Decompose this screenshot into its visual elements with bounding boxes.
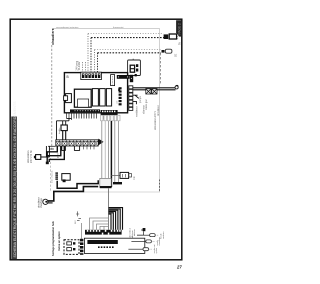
right-edge socket squares xyxy=(129,86,133,111)
pump M1 (circulator) xyxy=(43,199,48,204)
vertical connector column xyxy=(80,239,83,255)
relays K1 K2 K3 xyxy=(92,89,98,106)
connector CN1 (top, low-voltage inputs) xyxy=(81,72,102,79)
connector row 1 (toothed) xyxy=(85,230,122,235)
border frame xyxy=(10,19,182,260)
earth tick xyxy=(48,146,56,149)
thin vertical line right side xyxy=(159,53,161,84)
optional programmer clock H1 (dashed box) xyxy=(64,240,79,255)
page background xyxy=(0,0,200,284)
air pressure switch PA1 (box with cells) xyxy=(128,59,141,77)
svg-text:allumeur: allumeur xyxy=(142,105,145,114)
title banner (rotated, left edge) xyxy=(11,101,17,259)
small box with tab xyxy=(111,175,120,177)
ferrules under pcb connector xyxy=(101,115,120,121)
svg-text:PAGE 2: PAGE 2 xyxy=(178,23,182,35)
stubs under strip xyxy=(84,146,95,149)
svg-text:fusible: fusible xyxy=(59,127,61,134)
arrow at end xyxy=(98,139,103,146)
solder terminal strip (board bottom) xyxy=(70,109,100,112)
svg-text:chauffage: chauffage xyxy=(41,197,43,208)
lead 3 xyxy=(128,248,143,250)
main terminal block xyxy=(56,139,104,146)
wires entering top connector xyxy=(83,62,86,72)
mains inlet plug P1 (230V) xyxy=(36,155,41,160)
svg-text:27: 27 xyxy=(176,265,182,270)
outdoor sensor SE xyxy=(162,50,165,53)
wire stubs below PCB xyxy=(67,113,105,120)
svg-text:TA: TA xyxy=(179,42,182,45)
page tab top-right xyxy=(176,20,182,36)
svg-text:alimentation: alimentation xyxy=(27,150,30,163)
svg-text:SE: SE xyxy=(175,53,178,57)
room thermostat TA xyxy=(164,34,169,39)
lower plug connector below pcb xyxy=(57,118,72,139)
svg-text:option: option xyxy=(155,248,158,253)
svg-text:vanne gaz: vanne gaz xyxy=(146,99,148,110)
lead 2 xyxy=(131,240,145,242)
svg-text:tableau: tableau xyxy=(133,229,136,236)
svg-text:thermostat: thermostat xyxy=(113,26,124,29)
grey enclosure boundary xyxy=(53,29,160,197)
dashed earth line xyxy=(51,45,53,150)
micro text block at bundle right xyxy=(129,228,136,238)
wires from pcb to lower connector xyxy=(102,121,119,187)
labels xyxy=(153,231,165,254)
heavy staircase cable 2 (pump) xyxy=(48,187,98,203)
svg-text:B: B xyxy=(67,75,69,79)
svg-text:circulateur: circulateur xyxy=(157,105,160,116)
svg-text:circulateur: circulateur xyxy=(37,197,40,208)
light fan (left) xyxy=(90,218,109,230)
jumper clips below terminal block xyxy=(62,146,80,151)
control panel / display board A1 xyxy=(84,238,144,253)
dashed pair 1 (room thermostat) xyxy=(88,34,164,72)
connector CN5 (left edge) xyxy=(66,94,72,103)
svg-text:livree en option: livree en option xyxy=(57,231,61,251)
svg-text:TA 230V: TA 230V xyxy=(78,61,81,70)
svg-text:terre chassis: terre chassis xyxy=(51,170,54,183)
dashed pair 2 (sensor) xyxy=(95,50,162,72)
heavy cable to external plug xyxy=(133,88,176,90)
gas valve EV1 EV2 (boxes with X) xyxy=(146,89,157,94)
left rotated text columns xyxy=(51,221,61,256)
small switch marks right of pcb xyxy=(133,95,139,104)
rotated labels right of pcb xyxy=(116,95,160,130)
lower junction connector xyxy=(100,178,111,187)
svg-text:chauffage: chauffage xyxy=(159,236,161,246)
mains connector CN3 (black bar) xyxy=(117,75,130,79)
arrow plug xyxy=(143,228,146,231)
nested L wires left of terminal block xyxy=(47,146,64,162)
svg-text:230 V 50 Hz: 230 V 50 Hz xyxy=(31,150,33,163)
svg-text:sanitaire: sanitaire xyxy=(162,231,165,239)
svg-text:raccordement exterieur: raccordement exterieur xyxy=(56,26,79,29)
right bottom: sensor leads xyxy=(128,228,164,253)
lead 1 xyxy=(137,234,150,236)
connector CN2 (pin strip) xyxy=(111,75,115,86)
connector CN4 (right pin column) xyxy=(119,87,122,105)
svg-text:alimentation 230 V: alimentation 230 V xyxy=(154,111,157,130)
svg-text:chaudiere: chaudiere xyxy=(51,28,55,45)
ignition transformer TA1 with pin column xyxy=(55,172,70,182)
small diode marks xyxy=(76,211,81,220)
svg-text:24V prog: 24V prog xyxy=(75,60,78,70)
heavy staircase cable 1 xyxy=(57,180,98,188)
transformer T1 xyxy=(74,89,91,107)
main control board B xyxy=(64,72,134,115)
svg-text:SCHEMA ELECTRIQUE PICTHE RB 3: SCHEMA ELECTRIQUE PICTHE RB 3 20 (30,40,… xyxy=(13,101,17,258)
svg-text:pompe: pompe xyxy=(140,95,142,103)
single wire down from junction xyxy=(108,188,110,230)
heavy fan to connector row xyxy=(109,208,123,230)
connector CN6 (bottom right) xyxy=(101,110,118,115)
svg-text:horloge programmation heb: horloge programmation heb xyxy=(51,221,55,256)
svg-text:ventilateur: ventilateur xyxy=(136,106,139,117)
